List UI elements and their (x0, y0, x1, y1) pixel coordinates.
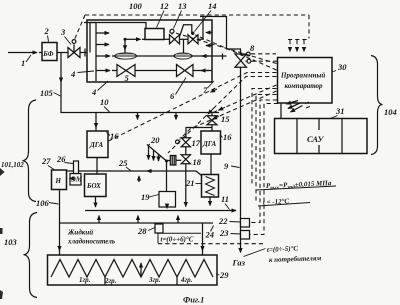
chamber separator 3 (176, 277, 178, 285)
brace 101,102 (23, 100, 37, 202)
dashed border group 100 left slant (75, 15, 86, 40)
comb arrow 2 (153, 151, 155, 161)
valve 17 actuator circle (176, 140, 180, 144)
dashed sensor 22 link (250, 100, 277, 223)
dashed control to valve 8 side circle (252, 60, 278, 62)
wire feed to filter (39, 52, 42, 54)
junction tick at box entry (84, 49, 86, 57)
fan arrow 3 (291, 106, 303, 113)
leader label 9 (231, 166, 240, 168)
leader label 13 (174, 11, 182, 29)
wire dot to restrictor (167, 160, 171, 162)
wire unit12 to valve 13 (164, 38, 170, 40)
svg-text:106: 106 (36, 198, 50, 208)
dashed control to valve 17 (180, 91, 277, 140)
wire top to valve 8 (203, 17, 241, 55)
arrow unit19 to line 11 (166, 207, 168, 208)
arrow return up 1 (98, 216, 100, 224)
svg-text:15: 15 (221, 114, 230, 124)
chamber separator arrow 2 (140, 263, 142, 277)
svg-text:22: 22 (218, 216, 228, 226)
wire feed inlet (8, 52, 37, 54)
wire valve14 out riser (198, 17, 203, 40)
sensor box 23 (241, 231, 250, 240)
leader label 106 (49, 203, 59, 205)
svg-text:БОХ: БОХ (86, 182, 101, 190)
svg-text:17: 17 (192, 138, 201, 148)
heat exchanger 21 (202, 175, 219, 198)
arrow stub up into line 25 (138, 176, 140, 182)
valve 8 actuator circle side (245, 60, 247, 62)
dashed link to setpoint arrows (288, 39, 309, 41)
svg-text:100: 100 (129, 1, 143, 11)
wire valve15 to ДГА right (211, 125, 213, 131)
leader label 16 left (107, 133, 111, 136)
leader label 12 (157, 11, 165, 28)
leader label 22 (230, 221, 241, 224)
node dot valve14 stem (191, 32, 194, 35)
leader label 14 (195, 11, 212, 32)
svg-text:4гр.: 4гр. (180, 276, 193, 284)
controller box САУ 31 (275, 119, 368, 154)
leader label 3 (65, 37, 72, 45)
wire filter to valve 3 (57, 52, 68, 54)
svg-text:12: 12 (160, 1, 169, 11)
svg-text:105: 105 (40, 88, 54, 98)
svg-text:t=(0÷-5)°C: t=(0÷-5)°C (267, 244, 299, 254)
bracket 104 (371, 56, 383, 155)
unit 19 box (159, 192, 176, 208)
dashed control to valve 15 (213, 85, 277, 113)
dashed control to valve 14 (195, 35, 277, 70)
heat exchanger block frame (solid box of group 100) (87, 20, 212, 82)
arrow return y70.5 (201, 70, 209, 72)
svg-text:10: 10 (100, 97, 109, 107)
dashed setpoint arrow 3 (303, 40, 305, 52)
leader label 105 (54, 93, 61, 97)
sensor box 22 (241, 219, 250, 228)
svg-text:31: 31 (335, 106, 345, 116)
svg-text:компаратор: компаратор (285, 82, 324, 90)
dashed border group 100 top (85, 14, 309, 16)
svg-text:19: 19 (141, 192, 150, 202)
wire ДГА right to HX 21 (210, 154, 212, 175)
valve 13 (170, 35, 180, 44)
leader label 31 (330, 116, 338, 119)
node tee 105 (60, 53, 62, 83)
arrowhead on control ДГА (211, 89, 218, 92)
pump box Н (27) (52, 170, 67, 190)
svg-text:1гр.: 1гр. (79, 276, 91, 284)
svg-text:2: 2 (44, 26, 50, 36)
arrow return y32.5 (206, 32, 212, 34)
comb arrow 1 (148, 147, 150, 160)
leader label 24 (211, 226, 214, 232)
leader to consumers text (244, 249, 266, 257)
coolant return line (60, 222, 214, 224)
arrow HX21 to line 11 (209, 197, 211, 206)
dashed control to restrictor 20 area (168, 77, 277, 154)
arrow БОХ to line 11 (95, 197, 97, 208)
chambers zigzag (51, 260, 213, 278)
wire branch y56 (112, 55, 227, 57)
svg-text:t = -12°C: t = -12°C (263, 197, 290, 206)
arrow ЭМ to Н (70, 178, 72, 180)
dashed control to ДГА left (109, 73, 277, 142)
comb 20 slant (147, 145, 167, 162)
dashed border group 100 right drop (308, 15, 310, 39)
dashed control to valve 13 (175, 33, 277, 64)
leader label 26 (65, 163, 74, 164)
arrowhead on control valve15 (219, 107, 226, 110)
cold chambers box 29 (48, 255, 218, 285)
svg-text:Газ: Газ (232, 258, 246, 268)
dashed setpoint arrow 2 (296, 40, 298, 52)
leader label 29 (216, 274, 220, 275)
dashed setpoint arrow 1 (289, 40, 291, 52)
gas line 9 down (240, 67, 242, 252)
arrow branch y33 (96, 32, 109, 34)
arrow return up 3 (177, 216, 179, 224)
svg-text:23: 23 (219, 228, 229, 238)
svg-text:4: 4 (70, 69, 75, 79)
element 26 (74, 161, 79, 174)
arrow drop stub 1 from line10 (137, 113, 139, 120)
svg-text:104: 104 (384, 107, 397, 117)
svg-text:2гр.: 2гр. (104, 277, 117, 285)
svg-text:20: 20 (150, 135, 160, 145)
valve 8 actuator circle top (241, 54, 247, 55)
arrow valve18 down to line 11 (185, 164, 187, 207)
scan speck left 2 (0, 290, 3, 299)
scan speck left 1 (0, 228, 3, 234)
end tick branch y56 (222, 54, 224, 60)
svg-text:24: 24 (205, 230, 215, 240)
leader label 4 left (78, 71, 95, 73)
svg-text:30: 30 (337, 62, 347, 72)
heat exchanger lens 2 (174, 53, 193, 59)
svg-text:28: 28 (137, 226, 147, 236)
dashed sensor 23 link (250, 104, 278, 235)
svg-text:Программный: Программный (280, 72, 325, 80)
leader label 4 lower (98, 81, 109, 91)
dashed callout t-12 (256, 95, 277, 203)
wire valve 3 to box (80, 52, 87, 54)
leader label 7 (208, 81, 215, 88)
wire restrictor to valve18 (176, 159, 181, 161)
motor box ЭМ (70, 174, 81, 186)
svg-text:27: 27 (41, 156, 51, 166)
wire branch to valve 17 (186, 128, 212, 138)
svg-text:Н: Н (55, 177, 62, 185)
node dot feed of unit 12 (124, 38, 127, 41)
chamber separator 1 (104, 277, 106, 285)
leader label 27 (48, 166, 54, 170)
wire valve17 to valve18 (185, 147, 187, 155)
brace 103 (24, 213, 38, 298)
svg-text:29: 29 (219, 270, 229, 280)
unit 12 box (145, 29, 164, 40)
svg-text:ЭМ: ЭМ (71, 176, 83, 184)
leader label 16 right (221, 135, 223, 138)
riser cap tick (200, 16, 207, 18)
svg-text:Фиг.1: Фиг.1 (183, 295, 204, 305)
dashed control to valve 8 top circle (251, 53, 276, 55)
svg-text:САУ: САУ (307, 134, 324, 144)
svg-text:ДГА: ДГА (89, 141, 103, 149)
valve 18 (181, 155, 190, 164)
svg-text:4: 4 (91, 87, 96, 97)
wire branch y70.5 (112, 70, 212, 72)
wire 106 vertical (59, 190, 61, 251)
svg-text:25: 25 (118, 158, 128, 168)
leader label 11 (225, 204, 230, 210)
wire dot down to lens1 (124, 39, 126, 50)
leader label 2 (48, 36, 49, 42)
arrow return y56 (202, 55, 209, 57)
svg-text:101,102: 101,102 (1, 161, 24, 169)
valve 5 (117, 65, 135, 77)
arrow return up 2 (137, 216, 139, 224)
leader label 20 (148, 144, 151, 146)
filter unit БФ (2) (42, 43, 57, 61)
svg-text:3гр.: 3гр. (148, 276, 161, 284)
comparator box 30 (278, 58, 333, 104)
svg-text:18: 18 (193, 157, 202, 167)
svg-text:хладоноситель: хладоноситель (67, 238, 115, 246)
arrow drop stub 2 from line10 (175, 113, 177, 120)
leader label 30 (332, 71, 336, 73)
valve 15 (207, 116, 217, 125)
leader label 1 (26, 55, 31, 62)
sensor 28 box (155, 224, 163, 233)
leader label 23 (231, 233, 241, 236)
fan dash bits (305, 102, 312, 109)
arrow branch y56 (96, 55, 110, 57)
valve 14 (188, 35, 198, 44)
svg-text:16: 16 (223, 132, 232, 142)
comb arrow 3 (158, 155, 160, 162)
svg-text:1: 1 (21, 58, 25, 68)
cooling unit БОХ (85, 174, 107, 197)
valve 3 (68, 44, 80, 57)
arrow drop from line10 into ДГА left (95, 113, 97, 128)
turbo unit ДГА left (16) (87, 131, 108, 158)
leader label 10 (104, 107, 110, 113)
svg-text:21: 21 (185, 178, 195, 188)
valve 17 (181, 138, 190, 147)
turbo unit ДГА right (16) (201, 131, 221, 154)
fan arrow 2 (288, 103, 300, 109)
svg-text:13: 13 (178, 1, 187, 11)
svg-text:Жидкий: Жидкий (67, 229, 93, 237)
svg-text:БФ: БФ (42, 50, 53, 58)
dashed callout Pвых (252, 89, 277, 187)
arrowhead on control restrictor (208, 108, 214, 114)
valve 15 stem (211, 113, 213, 116)
wire riser to top header (90, 23, 146, 53)
manifold left (95, 23, 97, 82)
coolant line 25 (67, 171, 202, 176)
header cap tick (84, 22, 97, 24)
node dot 20 (165, 160, 168, 163)
valve 6 (177, 65, 194, 77)
arrow branch y44.5 (96, 44, 109, 46)
svg-text:3: 3 (60, 27, 66, 37)
leader label 25 (126, 167, 131, 171)
svg-text:14: 14 (208, 1, 217, 11)
arrow dot to unit 12 (125, 38, 141, 40)
wire bypass hump (180, 25, 192, 36)
leader label 6 (176, 78, 187, 95)
line 11 (85, 210, 236, 212)
svg-text:ДГА: ДГА (202, 140, 216, 148)
wire 105 down and line 10 (61, 80, 219, 113)
heat exchanger lens 1 (115, 53, 138, 59)
svg-text:103: 103 (4, 237, 18, 247)
fan arrow 1 (287, 101, 299, 105)
scan speck left 0 (0, 168, 5, 176)
wire drop to lens2 (183, 39, 185, 53)
leader label 21 (196, 183, 202, 185)
arrow return y45.5 (206, 45, 212, 47)
wire comparator to САУ (280, 103, 282, 119)
leader label 19 (150, 195, 159, 198)
arrow drop into chambers right (202, 223, 204, 251)
wire dot down to unit 19 (166, 161, 168, 192)
restrictor element (170, 156, 176, 166)
leader label 28 (148, 228, 155, 231)
svg-text:t=(0÷+6)°C: t=(0÷+6)°C (161, 236, 194, 244)
wire valve13 to valve14 (180, 38, 189, 40)
svg-text:11: 11 (221, 194, 229, 204)
callout frame t=(0÷+6)C (158, 233, 201, 243)
wire ДГА left to БОХ (96, 158, 98, 175)
arrow on line 25 left (147, 170, 152, 172)
arrow branch y70.5 (96, 70, 110, 72)
arrowhead on control valve17 (213, 116, 220, 119)
valve 8 (235, 54, 247, 67)
